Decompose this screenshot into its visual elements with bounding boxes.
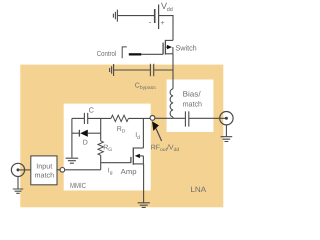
svg-text:D: D: [83, 140, 88, 147]
transistor Switch: [163, 40, 173, 55]
capacitor Cbypass: [150, 64, 153, 76]
input port P1: [11, 163, 24, 176]
svg-text:Bias/: Bias/: [183, 89, 202, 98]
wire (MMIC left branch down to ground): [71, 118, 73, 157]
capacitor C2 (output): [185, 111, 188, 126]
svg-text:+: +: [161, 20, 165, 27]
wire (output rail right): [189, 117, 227, 119]
svg-text:match: match: [35, 170, 55, 179]
resistor (thick dash) on control line: [129, 53, 142, 55]
wire (Amp source down): [143, 164, 145, 203]
svg-text:Control: Control: [97, 49, 117, 58]
inductor (Bias/match coil): [170, 89, 173, 117]
svg-text:match: match: [183, 99, 202, 108]
wire (control to gate): [141, 53, 163, 55]
wire (gate feed): [101, 162, 131, 164]
MMIC top rail wire: [72, 117, 84, 119]
node (MMIC input pin): [60, 168, 65, 173]
Bias/match white box: [167, 80, 214, 133]
LNA shaded region: [20, 65, 223, 208]
arrow to RFout node: [152, 121, 162, 141]
wire (switch source down to bypass rail): [172, 54, 174, 89]
svg-text:-: -: [149, 18, 152, 27]
svg-text:C: C: [89, 106, 94, 115]
wire: [88, 117, 111, 119]
svg-text:MMIC: MMIC: [70, 181, 87, 190]
wire (input match to MMIC): [56, 169, 100, 171]
battery B1: [155, 5, 159, 30]
wire (RG top feed): [100, 118, 102, 140]
ground (MMIC internal): [66, 158, 79, 163]
ground (below Amp): [138, 203, 150, 208]
ground (bypass rail, sideways): [110, 64, 114, 76]
ground (below output port): [221, 125, 233, 142]
wire (coil bottom to output rail): [172, 117, 174, 118]
wire: [117, 15, 154, 17]
resistor RG: [98, 141, 103, 155]
svg-text:Switch: Switch: [176, 44, 197, 53]
wire (RD to node): [128, 117, 150, 119]
wire: [159, 16, 173, 41]
wire (Amp drain up to rail): [142, 118, 144, 148]
capacitor C: [84, 113, 87, 124]
svg-text:LNA: LNA: [190, 185, 207, 194]
resistor RD: [111, 115, 128, 121]
wire (port to input match): [18, 169, 31, 171]
transistor Amp: [131, 148, 144, 165]
svg-text:Input: Input: [36, 161, 52, 170]
ground (below input port): [13, 177, 23, 194]
diode D: [72, 130, 101, 137]
ground (top-left, sideways): [113, 10, 117, 22]
wire (RG bottom to input rail): [100, 155, 102, 170]
output port P2: [220, 112, 233, 125]
input match box: [31, 156, 57, 185]
svg-text:Amp: Amp: [121, 167, 137, 176]
wire: [154, 69, 173, 71]
node RFout: [150, 116, 155, 121]
svg-text:Vdd: Vdd: [161, 1, 173, 13]
MMIC white cutout: [64, 104, 151, 191]
wire: [114, 69, 150, 71]
control step symbol: [122, 47, 127, 58]
wire (output rail left): [155, 117, 186, 119]
